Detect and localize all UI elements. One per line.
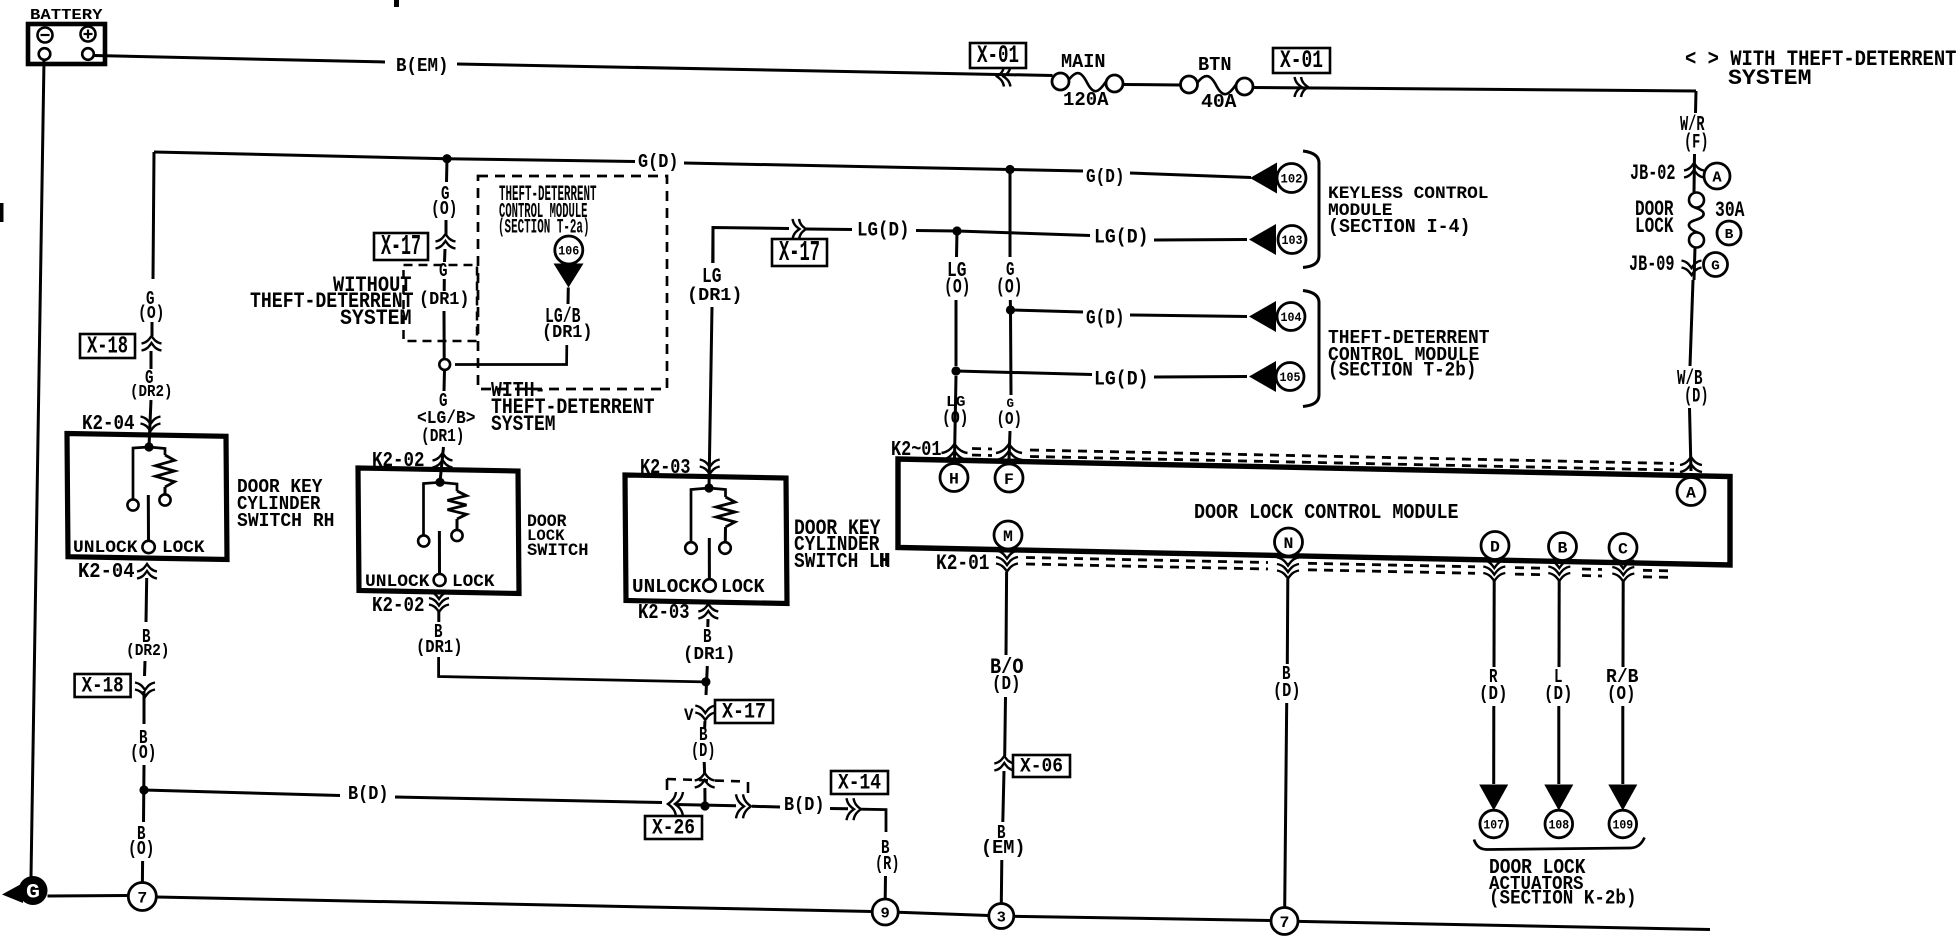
connector X-26 right chevron	[736, 794, 751, 818]
svg-text:(O): (O)	[130, 742, 157, 764]
wire B(D) right of X-26	[752, 805, 780, 809]
connector K2-01 H chevron	[942, 444, 968, 460]
connector K2-01 M chevron	[996, 551, 1018, 572]
svg-text:K2-03: K2-03	[638, 602, 690, 625]
switch DL resistor low wire	[456, 519, 459, 530]
label V	[684, 706, 694, 726]
wire N lower	[1285, 703, 1287, 908]
svg-text:(D): (D)	[992, 673, 1021, 695]
label (DR1) mid2	[421, 427, 465, 447]
svg-text:G(D): G(D)	[1086, 166, 1125, 188]
svg-text:X-18: X-18	[82, 673, 124, 698]
svg-text:G: G	[439, 260, 448, 282]
svg-text:(DR2): (DR2)	[126, 642, 170, 661]
svg-text:(D): (D)	[1684, 386, 1709, 409]
wire G column lower	[1009, 310, 1013, 395]
label L	[1554, 666, 1563, 688]
without-theft dashed box	[404, 265, 478, 341]
label (D) bo	[992, 673, 1021, 695]
junction node X-26	[700, 801, 709, 810]
svg-text:K2-02: K2-02	[372, 595, 425, 618]
label (DR2) rh lower	[126, 642, 170, 661]
svg-text:(R): (R)	[875, 853, 900, 875]
wire into arrow 102	[1130, 173, 1251, 178]
arrow 102 circle	[1277, 164, 1306, 193]
pin N circle	[1275, 528, 1303, 556]
wire G(D) mid segment	[447, 159, 635, 162]
connector K2-03 lower chevron	[698, 604, 718, 619]
svg-text:B(D): B(D)	[784, 794, 825, 816]
switch LH unlock wire	[691, 488, 709, 542]
svg-text:(DR1): (DR1)	[542, 323, 593, 343]
connector X-01 left chevron	[997, 67, 1011, 87]
arrow 102 triangle	[1250, 163, 1277, 194]
label CONTROL MODULE dashed	[499, 201, 588, 224]
label DOOR LOCK act	[1489, 857, 1586, 880]
battery label	[30, 8, 103, 24]
label (SECTION K-2b)	[1489, 888, 1637, 911]
svg-text:JB-02: JB-02	[1630, 160, 1676, 186]
wire into arrow 105	[1154, 375, 1247, 379]
switch DL lock terminal	[451, 530, 462, 541]
svg-text:X-18: X-18	[87, 333, 128, 360]
switch RH resistor branch wire	[149, 447, 165, 455]
svg-text:B: B	[1725, 227, 1734, 243]
pin A circle JB-02	[1704, 163, 1730, 189]
wire to X-26 chevron	[703, 762, 706, 773]
wire below X-18 lower	[143, 691, 146, 724]
svg-text:LG(D): LG(D)	[1094, 227, 1149, 250]
bus circle 9	[872, 899, 898, 925]
label WITHOUT	[333, 272, 412, 298]
svg-text:(O): (O)	[1607, 683, 1636, 705]
label (O) rh3	[128, 838, 155, 860]
label DOOR	[1635, 196, 1674, 222]
label B rh3	[137, 823, 146, 845]
arrow 105 circle	[1276, 363, 1304, 391]
label BTN	[1198, 54, 1232, 76]
svg-text:103: 103	[1282, 233, 1303, 248]
wire below join circle	[443, 370, 447, 391]
label W/R	[1680, 114, 1705, 137]
wire LG riser top	[711, 228, 714, 264]
junction node G to 104	[1006, 305, 1015, 314]
svg-text:K2-01: K2-01	[936, 550, 990, 576]
wire below K2-04	[145, 578, 149, 622]
connector K2-04 lower chevron	[137, 564, 157, 579]
label R/B	[1606, 666, 1639, 688]
svg-text:(SECTION K-2b): (SECTION K-2b)	[1489, 888, 1637, 911]
wire B(R) corner	[861, 809, 886, 832]
svg-text:(O): (O)	[996, 277, 1023, 300]
label KEYLESS CONTROL	[1328, 184, 1489, 204]
wire G rh mid	[151, 322, 154, 336]
resistor switch LH	[716, 497, 735, 527]
svg-text:K2-04: K2-04	[78, 561, 135, 584]
label (D) n	[1273, 680, 1301, 702]
svg-text:(D): (D)	[1479, 683, 1508, 705]
svg-text:(O): (O)	[997, 410, 1023, 430]
connector X-18 lower chevron	[135, 683, 155, 698]
label K2-04 lower	[78, 561, 135, 584]
label B(EM)	[396, 55, 449, 77]
switch RH unlock terminal	[127, 499, 138, 510]
arrow 103 triangle	[1249, 224, 1276, 255]
wire W/B down	[1690, 280, 1693, 366]
battery	[28, 24, 105, 64]
svg-text:UNLOCK: UNLOCK	[632, 576, 702, 598]
switch RH lock terminal	[159, 494, 170, 505]
label THEFT-DETERRENT right	[1328, 327, 1490, 349]
svg-text:X-17: X-17	[722, 699, 766, 724]
label JB-09	[1629, 251, 1675, 277]
pin H circle	[940, 464, 968, 492]
wire below X-17 upper	[443, 249, 447, 262]
svg-text:DOOR LOCK CONTROL MODULE: DOOR LOCK CONTROL MODULE	[1194, 502, 1459, 525]
connector X-01 left box	[970, 41, 1026, 70]
svg-text:9: 9	[881, 905, 890, 922]
svg-text:107: 107	[1483, 818, 1504, 833]
svg-text:(D): (D)	[691, 740, 716, 762]
junction node G riser	[442, 154, 451, 163]
arrow 105 triangle	[1249, 361, 1276, 392]
connector X-26 left chevron	[668, 792, 683, 816]
switch DL wiper wire	[438, 531, 441, 574]
svg-text:SWITCH LH: SWITCH LH	[794, 551, 891, 574]
svg-text:(D): (D)	[1544, 683, 1573, 705]
label UNLOCK dl	[365, 572, 430, 592]
terminal circle G/LGB join	[439, 359, 450, 370]
svg-text:(DR1): (DR1)	[687, 286, 743, 306]
wire above K2-02	[440, 447, 444, 482]
connector K2-03 upper chevron	[700, 460, 720, 475]
wire LG(D) to keyless 103	[957, 231, 1090, 236]
svg-text:V: V	[684, 706, 694, 726]
svg-text:X-17: X-17	[779, 236, 820, 269]
label LG(D) row105	[1094, 369, 1149, 392]
svg-text:LG(D): LG(D)	[857, 220, 910, 243]
connector K2-01 B chevron	[1548, 560, 1570, 581]
connector X-18 upper box	[80, 333, 135, 360]
fuse MAIN 120A	[1052, 73, 1123, 92]
label DOOR KEY rh	[237, 476, 323, 498]
label B(D) left	[348, 783, 389, 805]
label (F)	[1684, 132, 1709, 155]
label K2-02 lower	[372, 595, 425, 618]
actuator arrow R/B	[1608, 785, 1637, 811]
label (DR1) lh low	[683, 645, 736, 665]
connector X-17 row2 box	[772, 236, 827, 269]
label B dl	[434, 621, 443, 643]
label DOOR LOCK CONTROL MODULE	[1194, 502, 1459, 525]
svg-text:UNLOCK: UNLOCK	[365, 572, 430, 592]
switch RH wiper wire	[147, 495, 150, 541]
wire to V junction	[706, 666, 707, 695]
wire B(D) N down	[1286, 579, 1290, 664]
svg-text:(SECTION T-2a): (SECTION T-2a)	[498, 217, 590, 240]
fuse DOOR LOCK 30A	[1689, 193, 1704, 248]
pin F circle	[995, 464, 1023, 492]
wire bus right tail	[1298, 921, 1710, 929]
actuator arrow L	[1544, 785, 1573, 811]
label CYLINDER rh	[237, 493, 321, 515]
connector K2-04 upper chevron	[141, 417, 161, 432]
label LG/B brackets	[417, 409, 476, 429]
wire seg G mid	[443, 279, 446, 291]
label MAIN	[1061, 51, 1106, 73]
svg-text:LOCK: LOCK	[1635, 213, 1674, 239]
pin A circle	[1677, 478, 1705, 506]
svg-text:B(D): B(D)	[348, 783, 389, 805]
theft bracket	[1303, 291, 1319, 407]
label G mid3	[439, 390, 448, 412]
svg-text:SYSTEM: SYSTEM	[340, 305, 412, 331]
label LOCK rh	[162, 538, 205, 558]
label (D) r	[1479, 683, 1508, 705]
svg-text:3: 3	[997, 909, 1006, 926]
label B(D) right	[784, 794, 825, 816]
actuator circle 107	[1480, 810, 1508, 838]
svg-text:108: 108	[1549, 818, 1570, 833]
label K2-02 upper	[372, 450, 425, 473]
wire B/O down	[1005, 572, 1009, 655]
connector X-14 chevron	[847, 798, 862, 820]
label LOCK dl2	[527, 527, 565, 545]
wire to X-18 lower	[143, 661, 147, 676]
label LG(D) row103	[1094, 227, 1149, 250]
label LG col2	[946, 395, 966, 411]
label DOOR KEY lh	[794, 515, 881, 541]
label CYLINDER lh	[794, 534, 880, 557]
switch DL resistor wire	[440, 482, 457, 491]
wire G column upper	[1009, 170, 1012, 258]
wire bus 3 to 7	[1014, 916, 1271, 920]
svg-text:H: H	[879, 550, 889, 572]
svg-text:X-26: X-26	[652, 815, 695, 840]
connector K2-02 lower chevron	[429, 592, 449, 613]
switch DL unlock wire	[424, 482, 441, 535]
label G mid2	[439, 260, 448, 282]
connector X-18 upper chevron	[142, 336, 162, 351]
wire LG column lower	[955, 300, 958, 366]
wire below fuse	[1694, 248, 1695, 280]
switch RH wiper terminal	[142, 541, 154, 553]
svg-text:SYSTEM: SYSTEM	[1728, 65, 1812, 91]
label THEFT-DETERRENT left	[250, 288, 414, 314]
connector K2-01 N chevron	[1277, 558, 1299, 579]
wire into X-26 junction	[703, 788, 706, 806]
actuator circle 108	[1545, 810, 1573, 838]
label (R) br	[875, 853, 900, 875]
label K2-04 upper	[82, 413, 135, 436]
wire LG corner to X-17	[713, 228, 789, 264]
actuator underbrace	[1474, 838, 1645, 850]
svg-text:<LG/B>: <LG/B>	[417, 409, 476, 429]
svg-text:(O): (O)	[942, 409, 969, 429]
label THEFT-DETERRENT with	[491, 394, 655, 420]
wire R lower	[1492, 706, 1495, 784]
svg-text:(SECTION T-2b): (SECTION T-2b)	[1328, 360, 1477, 383]
label 40A	[1201, 91, 1237, 113]
wire LG(D) seg	[806, 228, 852, 232]
label LG(D) row2	[857, 220, 910, 243]
switch RH input node	[144, 442, 153, 451]
label H stray	[879, 550, 889, 572]
connector X-17 upper box	[374, 230, 428, 263]
svg-text:(O): (O)	[128, 838, 155, 860]
svg-text:BATTERY: BATTERY	[30, 8, 103, 24]
svg-text:LOCK: LOCK	[162, 538, 205, 558]
switch LH unlock terminal	[685, 542, 697, 554]
connector X-14 box	[831, 770, 888, 795]
svg-text:40A: 40A	[1201, 91, 1237, 113]
label LOCK lh	[721, 576, 765, 598]
label G col1	[1006, 259, 1015, 281]
arrow 103 circle	[1278, 226, 1306, 254]
switch DL wiper terminal	[434, 574, 446, 586]
label B n	[1282, 663, 1291, 685]
wire below X-06	[1003, 771, 1004, 822]
svg-text:(O): (O)	[944, 277, 971, 300]
svg-text:(EM): (EM)	[981, 837, 1026, 859]
switch RH unlock contact wire	[133, 447, 149, 500]
page edge mark left	[0, 203, 4, 222]
wire R down	[1493, 581, 1496, 667]
connector X-26 up chevron	[695, 773, 715, 788]
wire into module pin A	[1690, 408, 1692, 471]
door key cylinder switch LH box	[625, 475, 787, 604]
wire G(D) left segment	[154, 152, 447, 159]
label B rh2	[139, 727, 148, 749]
label (O) mid1	[431, 198, 458, 220]
wire below X-17 V	[703, 721, 706, 728]
connector X-17 row2 chevron	[793, 219, 807, 239]
label G col2	[1007, 396, 1015, 411]
label DOOR dl	[527, 512, 567, 532]
wire through X-26	[676, 805, 736, 806]
label SYSTEM with	[491, 411, 556, 437]
svg-text:SWITCH: SWITCH	[527, 541, 589, 561]
connector X-01 right chevron	[1295, 77, 1309, 97]
wire LG(D) to arrow 105	[956, 371, 1092, 375]
svg-text:X-14: X-14	[838, 770, 881, 795]
svg-text:104: 104	[1281, 310, 1302, 325]
wire into arrow 104	[1130, 315, 1247, 317]
label K2-03 upper	[640, 457, 691, 480]
label UNLOCK rh	[73, 538, 138, 558]
label MODULE	[1328, 201, 1393, 221]
wire LG(D) to junction	[916, 229, 957, 233]
wire B(EM) from battery	[94, 56, 385, 63]
label B lh	[703, 626, 712, 648]
wire L lower	[1557, 706, 1560, 784]
pin D circle	[1481, 532, 1509, 560]
bus circle 7 right	[1271, 908, 1298, 935]
label 30A	[1715, 197, 1745, 223]
keyless bracket	[1303, 151, 1319, 268]
svg-text:7: 7	[137, 889, 147, 907]
svg-text:X-01: X-01	[1280, 46, 1323, 75]
svg-text:< > WITH THEFT-DETERRENT: < > WITH THEFT-DETERRENT	[1685, 46, 1957, 72]
label W/B	[1677, 368, 1703, 391]
resistor switch RH	[156, 455, 175, 487]
label (O) LG col2	[942, 409, 969, 429]
wire between fuses	[1123, 83, 1181, 87]
connector X-26 box	[645, 815, 702, 840]
label (D) l	[1544, 683, 1573, 705]
wire W/R down	[1694, 91, 1698, 113]
wire below X-18 upper	[150, 351, 153, 369]
label SWITCH RH	[237, 510, 335, 532]
label (SECTION T-2b)	[1328, 360, 1477, 383]
label (D) v	[691, 740, 716, 762]
label (SECTION T-2a)	[498, 217, 590, 240]
svg-text:G: G	[26, 882, 40, 905]
arrow 106 circle	[555, 236, 583, 264]
label UNLOCK lh	[632, 576, 702, 598]
arrow 104 circle	[1277, 303, 1305, 331]
label (DR2) rh	[130, 383, 173, 402]
wire below K2-03	[706, 619, 709, 627]
note with theft-deterrent	[1685, 46, 1957, 72]
X-26 dashed outline	[667, 779, 748, 793]
connector X-17 upper chevron	[436, 234, 456, 249]
svg-text:G(D): G(D)	[1086, 308, 1125, 331]
label K2-01 top	[891, 439, 942, 462]
wire G riser RH top	[153, 152, 154, 279]
connector X-17 V box	[715, 699, 773, 724]
arrow 104 triangle	[1249, 301, 1276, 332]
arrow 106 triangle	[554, 264, 584, 288]
svg-text:X-01: X-01	[977, 41, 1019, 70]
wire LG col to pin H	[955, 376, 957, 459]
wire bus 7 to 9	[157, 897, 873, 912]
wire G(D) to keyless	[1010, 170, 1083, 172]
wire bus 9 to 3	[898, 912, 988, 915]
svg-text:N: N	[1284, 535, 1294, 553]
label (SECTION I-4)	[1328, 216, 1471, 238]
svg-text:LOCK: LOCK	[452, 572, 495, 592]
wire G mid from junction	[445, 159, 449, 182]
svg-text:(DR1): (DR1)	[683, 645, 736, 665]
label SWITCH dl	[527, 541, 589, 561]
pin G circle JB-09	[1704, 253, 1728, 277]
svg-text:(DR2): (DR2)	[130, 383, 173, 402]
label B em	[997, 822, 1006, 844]
connector K2-01 D chevron	[1483, 560, 1505, 581]
theft-deterrent control module dashed box	[478, 176, 667, 389]
pin B circle	[1549, 533, 1577, 561]
svg-text:(O): (O)	[431, 198, 458, 220]
wire to BD junction	[142, 765, 146, 822]
wire B(EM) to fuse MAIN	[457, 64, 1053, 76]
wire R/B lower	[1621, 706, 1624, 784]
label LOCK dl	[452, 572, 495, 592]
label (O) rh1	[138, 304, 165, 324]
door lock control module box	[898, 459, 1730, 565]
wire L down	[1558, 581, 1561, 667]
svg-text:B(EM): B(EM)	[396, 55, 449, 77]
label B v	[699, 724, 708, 746]
svg-text:JB-09: JB-09	[1629, 251, 1675, 277]
connector JB-09 chevron	[1682, 261, 1702, 276]
wire below 106	[567, 288, 570, 305]
connector K2-01 C chevron	[1612, 561, 1634, 582]
svg-text:106: 106	[558, 244, 579, 259]
wire into arrow 103	[1154, 238, 1247, 242]
connector X-06 chevron	[994, 756, 1014, 771]
wire to X-17 upper	[445, 220, 448, 236]
